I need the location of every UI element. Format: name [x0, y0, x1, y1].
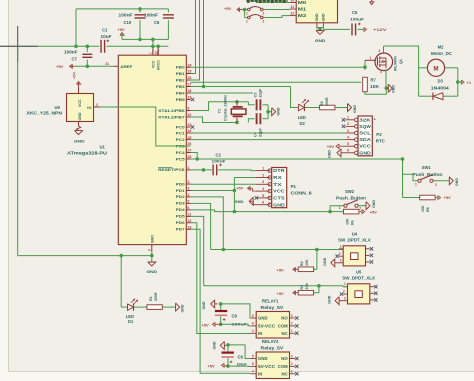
svg-text:PB4: PB4	[176, 91, 186, 95]
svg-text:100uF: 100uF	[350, 17, 365, 22]
svg-text:1: 1	[246, 19, 248, 23]
svg-text:RX: RX	[273, 175, 283, 180]
svg-text:1: 1	[291, 329, 293, 333]
svg-text:GND: GND	[258, 316, 268, 321]
svg-text:+1: +1	[467, 80, 472, 85]
svg-text:+5V: +5V	[327, 144, 335, 149]
svg-text:+5V: +5V	[56, 64, 64, 69]
svg-text:PB3: PB3	[176, 85, 185, 89]
svg-text:12: 12	[290, 12, 294, 16]
svg-text:1: 1	[347, 116, 349, 120]
svg-text:GND: GND	[455, 178, 459, 186]
svg-text:R3: R3	[300, 285, 304, 290]
svg-text:U1: U1	[100, 145, 106, 150]
svg-text:C9: C9	[238, 354, 244, 359]
svg-text:GND: GND	[392, 85, 396, 93]
svg-text:Y1: Y1	[217, 109, 221, 114]
svg-text:+5V: +5V	[277, 267, 285, 272]
svg-text:GND: GND	[235, 199, 244, 204]
svg-text:+5V: +5V	[73, 72, 77, 79]
svg-text:NO: NO	[281, 356, 288, 361]
svg-text:2: 2	[291, 322, 293, 326]
svg-text:2: 2	[379, 49, 381, 53]
svg-text:SDA: SDA	[359, 137, 371, 142]
svg-text:4: 4	[187, 193, 189, 197]
svg-text:200R: 200R	[325, 97, 329, 106]
svg-text:C6: C6	[154, 20, 160, 25]
svg-text:P2: P2	[376, 132, 382, 137]
svg-text:10K: 10K	[305, 259, 309, 266]
svg-text:C2: C2	[216, 152, 222, 157]
svg-text:2: 2	[359, 206, 361, 210]
svg-text:23: 23	[187, 123, 191, 127]
svg-text:Relay_5V: Relay_5V	[261, 305, 284, 310]
svg-text:M1: M1	[298, 7, 307, 12]
svg-text:M2: M2	[438, 45, 444, 50]
svg-text:100nF: 100nF	[144, 13, 159, 18]
svg-text:Motor_DC: Motor_DC	[431, 51, 452, 56]
svg-text:U4: U4	[352, 232, 358, 237]
svg-text:10K: 10K	[421, 205, 425, 212]
svg-text:IO: IO	[87, 105, 91, 110]
svg-text:+12V: +12V	[373, 27, 387, 32]
svg-text:SW2: SW2	[345, 189, 355, 194]
svg-text:NC: NC	[281, 331, 287, 336]
svg-text:AVCC: AVCC	[157, 60, 161, 71]
svg-text:U9: U9	[55, 105, 61, 110]
svg-text:CONN_6: CONN_6	[291, 191, 313, 196]
svg-text:10: 10	[290, 0, 294, 3]
svg-text:2: 2	[343, 290, 345, 294]
svg-text:XKC_Y25_NPN: XKC_Y25_NPN	[27, 111, 63, 116]
svg-text:21: 21	[105, 62, 109, 66]
svg-text:1: 1	[339, 206, 341, 210]
svg-text:C3: C3	[253, 93, 257, 98]
svg-text:TX: TX	[273, 182, 283, 187]
svg-text:9: 9	[187, 107, 189, 111]
svg-text:1: 1	[291, 370, 293, 374]
svg-text:GND: GND	[328, 295, 332, 303]
svg-text:PB2: PB2	[176, 78, 185, 82]
svg-text:IRL540N: IRL540N	[394, 56, 398, 71]
svg-text:PC5: PC5	[176, 157, 185, 161]
svg-text:PB0: PB0	[176, 66, 185, 70]
svg-text:2: 2	[262, 173, 264, 177]
svg-text:M0: M0	[298, 0, 307, 5]
svg-text:GND: GND	[315, 13, 319, 21]
svg-text:+5V: +5V	[236, 185, 244, 190]
svg-text:1: 1	[340, 244, 342, 248]
svg-text:PC4: PC4	[176, 151, 186, 155]
svg-text:100nF: 100nF	[119, 13, 134, 18]
svg-text:3: 3	[291, 314, 293, 318]
svg-text:6: 6	[252, 322, 254, 326]
svg-text:+5V: +5V	[202, 322, 210, 327]
svg-text:M: M	[433, 66, 438, 73]
svg-text:1: 1	[262, 167, 264, 171]
svg-text:PD5: PD5	[176, 215, 185, 219]
svg-text:R2: R2	[300, 261, 304, 266]
svg-text:3: 3	[262, 180, 264, 184]
svg-text:5: 5	[262, 194, 264, 198]
svg-text:D1: D1	[128, 319, 134, 324]
svg-text:GND: GND	[277, 107, 281, 115]
svg-text:C10: C10	[124, 20, 132, 25]
svg-text:22pF: 22pF	[258, 88, 262, 98]
svg-text:VCC: VCC	[151, 60, 155, 68]
svg-text:PC0: PC0	[176, 125, 185, 129]
svg-text:2: 2	[291, 362, 293, 366]
svg-text:3: 3	[340, 259, 342, 263]
svg-text:GND: GND	[202, 301, 206, 309]
svg-text:RTC: RTC	[376, 139, 386, 144]
svg-text:RESET/PC6: RESET/PC6	[158, 168, 185, 172]
svg-text:2: 2	[339, 252, 341, 256]
svg-text:6: 6	[187, 206, 189, 210]
svg-text:3: 3	[347, 129, 349, 133]
svg-text:C5: C5	[352, 10, 358, 15]
svg-text:5: 5	[187, 200, 189, 204]
svg-text:+5V: +5V	[370, 209, 378, 214]
svg-text:2: 2	[347, 122, 349, 126]
svg-text:PD2: PD2	[176, 195, 185, 199]
svg-text:C1: C1	[102, 28, 108, 33]
svg-text:RELAY1: RELAY1	[262, 299, 279, 304]
svg-text:PD3: PD3	[176, 202, 185, 206]
svg-text:+5V: +5V	[277, 291, 285, 296]
svg-text:SQW: SQW	[359, 124, 371, 129]
svg-text:SCL: SCL	[359, 131, 371, 136]
svg-text:+5V: +5V	[444, 195, 452, 200]
svg-text:100uF: 100uF	[237, 362, 247, 367]
svg-text:AREF: AREF	[120, 65, 133, 69]
svg-text:R1: R1	[149, 296, 153, 301]
svg-text:2: 2	[96, 103, 98, 107]
svg-text:1: 1	[415, 182, 417, 186]
svg-text:GND: GND	[328, 150, 332, 158]
svg-text:Push_Button: Push_Button	[413, 172, 444, 177]
svg-text:GND: GND	[150, 235, 154, 244]
svg-text:GND: GND	[322, 13, 326, 21]
svg-text:200R: 200R	[154, 292, 158, 301]
svg-text:GND: GND	[353, 105, 357, 113]
svg-text:2: 2	[435, 183, 437, 187]
svg-text:7: 7	[149, 52, 153, 54]
svg-text:1: 1	[344, 282, 346, 286]
svg-text:6: 6	[252, 362, 254, 366]
svg-text:10uF: 10uF	[101, 34, 112, 39]
svg-text:PD7: PD7	[176, 228, 185, 232]
svg-text:5: 5	[252, 354, 254, 358]
svg-text:R5: R5	[320, 101, 324, 106]
svg-text:5V-VCC: 5V-VCC	[258, 364, 275, 369]
svg-text:GND: GND	[74, 139, 85, 144]
svg-text:PD0: PD0	[176, 182, 185, 186]
svg-text:+5V: +5V	[224, 6, 232, 11]
svg-text:COM: COM	[278, 324, 288, 329]
svg-text:PD1: PD1	[176, 189, 185, 193]
svg-text:R7: R7	[371, 78, 377, 83]
svg-text:VCC: VCC	[273, 189, 285, 194]
svg-text:1N4004: 1N4004	[431, 85, 450, 90]
svg-text:SW_DPDT_XLX: SW_DPDT_XLX	[338, 238, 371, 243]
svg-text:6: 6	[262, 201, 264, 205]
svg-text:Push_Button: Push_Button	[336, 195, 367, 200]
svg-text:M2: M2	[298, 13, 307, 18]
svg-text:3: 3	[344, 296, 346, 300]
svg-text:1: 1	[370, 56, 372, 60]
svg-text:IN: IN	[258, 331, 262, 336]
svg-text:GND: GND	[315, 38, 326, 43]
svg-text:NC: NC	[281, 371, 287, 376]
svg-text:1: 1	[246, 11, 248, 15]
svg-text:VCC: VCC	[78, 99, 82, 107]
svg-text:SW1: SW1	[422, 165, 432, 170]
svg-text:32K: 32K	[359, 117, 371, 122]
svg-text:4: 4	[252, 329, 254, 333]
svg-text:GND: GND	[78, 112, 82, 120]
svg-text:GND: GND	[323, 257, 327, 265]
svg-text:2: 2	[263, 19, 265, 23]
svg-text:4: 4	[262, 187, 264, 191]
svg-text:GND: GND	[273, 202, 285, 207]
svg-text:GND: GND	[181, 304, 185, 312]
svg-text:P1: P1	[291, 184, 297, 189]
svg-text:PB1: PB1	[176, 72, 185, 76]
svg-text:5: 5	[252, 314, 254, 318]
svg-text:2: 2	[263, 11, 265, 15]
svg-text:GND: GND	[258, 356, 268, 361]
svg-text:VCC: VCC	[359, 144, 371, 149]
svg-text:DTR: DTR	[273, 168, 285, 173]
svg-text:3: 3	[187, 187, 189, 191]
svg-text:C7: C7	[72, 57, 78, 62]
svg-text:GND: GND	[372, 200, 376, 208]
svg-text:10K: 10K	[305, 283, 309, 290]
svg-text:LED: LED	[298, 115, 306, 120]
svg-text:5V-VCC: 5V-VCC	[258, 324, 275, 329]
svg-text:Q1: Q1	[399, 59, 403, 64]
svg-text:IN: IN	[258, 371, 262, 376]
svg-text:3: 3	[291, 354, 293, 358]
svg-text:4: 4	[347, 135, 349, 139]
svg-text:NO: NO	[281, 316, 288, 321]
svg-text:SW_DPDT_XLX: SW_DPDT_XLX	[342, 276, 375, 281]
svg-text:GND: GND	[213, 341, 217, 349]
svg-text:19: 19	[187, 96, 191, 100]
svg-text:1: 1	[187, 166, 189, 170]
svg-text:100nF: 100nF	[64, 50, 78, 55]
svg-text:4: 4	[252, 370, 254, 374]
svg-text:5: 5	[347, 142, 349, 146]
svg-text:PC2: PC2	[176, 138, 185, 142]
svg-text:PD6: PD6	[176, 221, 185, 225]
svg-text:D2: D2	[300, 121, 306, 126]
svg-text:RELAY2: RELAY2	[262, 339, 279, 344]
svg-text:ATmega328-PU: ATmega328-PU	[67, 150, 107, 155]
svg-text:PB5: PB5	[176, 98, 185, 102]
svg-text:D3: D3	[438, 79, 444, 84]
svg-text:+5V: +5V	[118, 27, 126, 32]
svg-text:XTAL2/PB7: XTAL2/PB7	[158, 115, 185, 119]
svg-text:11: 11	[290, 5, 294, 9]
svg-text:Crystal_16MHz: Crystal_16MHz	[223, 95, 227, 121]
svg-text:+5V: +5V	[208, 363, 216, 368]
svg-text:20: 20	[155, 51, 159, 55]
svg-text:2: 2	[187, 180, 189, 184]
svg-text:6: 6	[347, 149, 349, 153]
svg-text:22pF: 22pF	[258, 127, 262, 137]
svg-text:R8: R8	[426, 207, 430, 212]
svg-text:PD4: PD4	[176, 208, 186, 212]
svg-text:GND: GND	[147, 269, 158, 274]
svg-text:8: 8	[148, 249, 152, 251]
svg-text:COM: COM	[278, 364, 288, 369]
svg-text:XTAL1/PB6: XTAL1/PB6	[158, 109, 185, 113]
svg-text:10K: 10K	[370, 84, 379, 89]
svg-text:CTS: CTS	[273, 196, 285, 201]
svg-text:U5: U5	[356, 270, 362, 275]
svg-text:Relay_5V: Relay_5V	[261, 345, 284, 350]
svg-text:C8: C8	[232, 313, 238, 318]
svg-text:R6: R6	[351, 220, 355, 225]
svg-text:3: 3	[380, 70, 382, 74]
svg-text:PC1: PC1	[176, 131, 185, 135]
svg-text:10K: 10K	[346, 218, 350, 225]
svg-text:GND: GND	[359, 150, 371, 155]
